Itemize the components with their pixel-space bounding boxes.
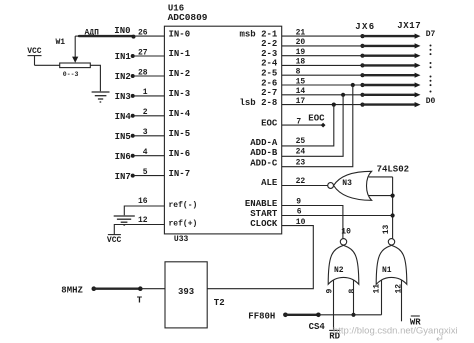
wire data bit 2-1 — [282, 35, 363, 37]
svg-text:ref(-): ref(-) — [169, 201, 198, 210]
bus ellipsis dots — [430, 45, 432, 93]
junction N3 lower input — [391, 194, 395, 198]
wire VCC to potentiometer — [35, 64, 60, 66]
svg-text:8MHZ: 8MHZ — [61, 286, 83, 296]
svg-text:16: 16 — [138, 197, 148, 206]
svg-text:JX6: JX6 — [355, 22, 375, 32]
junction — [360, 63, 364, 67]
wire N3 input lower — [369, 195, 393, 197]
junction JX6 D7 — [360, 34, 364, 38]
arrow D3 — [415, 73, 421, 78]
svg-text:ENABLE: ENABLE — [245, 199, 278, 209]
svg-text:27: 27 — [138, 48, 148, 57]
wire EOC — [282, 124, 322, 126]
junction — [360, 73, 364, 77]
svg-text:3: 3 — [143, 128, 148, 137]
svg-text:IN2: IN2 — [115, 72, 131, 82]
wire wiper vertical — [74, 36, 76, 57]
wire IN5 — [133, 135, 165, 137]
svg-text:2-5: 2-5 — [261, 69, 277, 79]
wire CS4 (bold) — [285, 314, 318, 316]
junction — [360, 44, 364, 48]
svg-text:8: 8 — [348, 289, 357, 294]
junction — [360, 83, 364, 87]
svg-text:2-3: 2-3 — [261, 49, 277, 59]
svg-text:IN4: IN4 — [115, 112, 132, 122]
svg-text:25: 25 — [296, 137, 306, 146]
svg-text:0--3: 0--3 — [63, 71, 79, 78]
node RD — [329, 330, 340, 341]
junction — [360, 103, 364, 107]
wire ALE — [282, 185, 328, 187]
svg-text:5: 5 — [143, 168, 148, 177]
wire IN2 — [133, 75, 165, 77]
arrow D0 — [415, 102, 421, 107]
junction ADD-C tap — [351, 83, 355, 87]
svg-text:2-7: 2-7 — [261, 88, 277, 98]
arrow D6 — [415, 43, 421, 48]
wire ADD-B to D1 — [282, 95, 343, 157]
wire bus D6 — [363, 45, 416, 47]
wire CLOCK to counter 393 — [207, 226, 313, 289]
svg-text:2: 2 — [143, 108, 148, 117]
svg-text:IN-4: IN-4 — [169, 109, 191, 119]
svg-text:393: 393 — [178, 287, 194, 297]
svg-text:VCC: VCC — [27, 47, 42, 56]
svg-text:24: 24 — [296, 148, 306, 157]
svg-text:ADC0809: ADC0809 — [168, 12, 208, 23]
arrow D4 — [415, 63, 421, 68]
wire ADD-C to D2 — [282, 85, 353, 167]
wire data bit 2-6 — [282, 84, 363, 86]
wire bus D2 — [363, 84, 416, 86]
svg-text:ADD-A: ADD-A — [250, 138, 278, 148]
wire N1 input pin12 to WR — [401, 280, 403, 322]
wire 8MHZ clock (bold) — [94, 288, 141, 290]
arrow D2 — [415, 82, 421, 87]
svg-text:CLOCK: CLOCK — [250, 219, 278, 229]
svg-text:EOC: EOC — [261, 118, 278, 128]
svg-text:12: 12 — [138, 216, 148, 225]
transistor Q2 : NOR gate N1 (vertical) — [376, 239, 407, 285]
svg-text:U33: U33 — [174, 235, 189, 244]
wire ref(+) pin 12 — [114, 225, 164, 235]
svg-text:2-6: 2-6 — [261, 78, 277, 88]
wire ref(-) pin 16 — [124, 206, 164, 215]
wire ADD-A to D0 — [282, 105, 334, 146]
wire N3 input upper — [369, 176, 393, 178]
svg-text:IN3: IN3 — [115, 92, 131, 102]
wire bus D4 — [363, 64, 416, 66]
svg-text:13: 13 — [382, 224, 391, 234]
wire CS4 to N1 pin11 — [318, 314, 381, 316]
wire IN0 to pin 26 — [134, 35, 165, 37]
op-amp N3 NOR gate 74LS02 (mirrored) — [328, 171, 372, 200]
resistor W1 potentiometer body — [60, 63, 91, 68]
wire bus D3 — [363, 74, 416, 76]
svg-text:28: 28 — [138, 68, 148, 77]
junction — [360, 93, 364, 97]
svg-text:ADD-B: ADD-B — [250, 148, 278, 158]
arrow D5 — [415, 53, 421, 58]
svg-text:T: T — [137, 296, 143, 306]
junction — [360, 54, 364, 58]
svg-text:VCC: VCC — [107, 236, 122, 245]
svg-text:IN1: IN1 — [115, 52, 132, 62]
svg-text:D0: D0 — [426, 97, 436, 106]
wiper arrowhead — [72, 57, 78, 63]
svg-text:26: 26 — [138, 28, 148, 37]
svg-text:ref(+): ref(+) — [169, 220, 198, 229]
junction IN0 — [132, 35, 136, 39]
svg-text:msb 2-1: msb 2-1 — [239, 29, 277, 39]
svg-text:10: 10 — [341, 228, 351, 237]
svg-text:CS4: CS4 — [309, 322, 326, 332]
svg-text:EOC: EOC — [308, 114, 325, 124]
wire N3 inputs to START/N1 vertical — [392, 177, 394, 239]
svg-text:IN6: IN6 — [115, 152, 131, 162]
svg-text:ADD-C: ADD-C — [250, 159, 278, 169]
capacitor C1 : counter 393 box — [165, 262, 207, 328]
wire IN1 — [133, 55, 165, 57]
svg-text:IN-5: IN-5 — [169, 129, 191, 139]
svg-text:IN-6: IN-6 — [169, 149, 191, 159]
svg-text:22: 22 — [296, 177, 306, 186]
svg-text:74LS02: 74LS02 — [377, 164, 409, 174]
svg-text:lsb 2-8: lsb 2-8 — [239, 98, 277, 108]
wire bus D5 — [363, 55, 416, 57]
svg-text:START: START — [250, 209, 278, 219]
junction ADD-B tap — [341, 93, 345, 97]
wire IN3 — [133, 95, 165, 97]
wire IN4 — [133, 115, 165, 117]
wire bus D0 — [363, 103, 416, 105]
op-amp U1 : ADC0809 IC body U16 — [164, 26, 281, 234]
wire data bit 2-5 — [282, 74, 363, 76]
svg-text:2-2: 2-2 — [261, 39, 277, 49]
svg-text:IN5: IN5 — [115, 132, 131, 142]
arrow D7 — [415, 34, 421, 39]
ground (under potentiometer) — [92, 92, 110, 102]
junction START — [391, 213, 395, 217]
junction pin8/CS4 — [351, 313, 355, 317]
junction T — [138, 286, 143, 291]
wire N2 input pin8 to CS4 net — [353, 280, 355, 315]
junction CS4 — [316, 313, 321, 318]
svg-text:D7: D7 — [426, 30, 436, 39]
wire N1 input pin11 from CS4 net — [381, 280, 383, 315]
node VCC (bottom) — [107, 235, 122, 246]
svg-text:IN0: IN0 — [114, 26, 130, 36]
svg-text:IN7: IN7 — [115, 172, 131, 182]
wire N2 input pin9 to RD — [333, 280, 335, 330]
svg-text:IN-0: IN-0 — [169, 29, 191, 39]
svg-text:IN-3: IN-3 — [169, 89, 191, 99]
wire data bit 2-4 — [282, 64, 363, 66]
svg-text:N1: N1 — [382, 266, 392, 275]
node VCC (top left) — [27, 47, 42, 65]
wire IN7 — [133, 175, 165, 177]
wire ENABLE to N2 output — [282, 206, 343, 239]
arrow D1 — [415, 92, 421, 97]
junction FF80H — [283, 313, 288, 318]
svg-text:↵: ↵ — [436, 334, 444, 343]
wire data bit 2-8 — [282, 104, 363, 106]
node EOC terminal — [321, 123, 326, 128]
wire START — [282, 215, 393, 217]
svg-text:JX17: JX17 — [397, 21, 421, 31]
wire IN0 (bold analog input) — [75, 35, 79, 37]
svg-text:12: 12 — [395, 284, 404, 294]
svg-text:11: 11 — [372, 284, 381, 294]
svg-text:23: 23 — [296, 158, 306, 167]
svg-text:IN-7: IN-7 — [169, 169, 191, 179]
junction 8MHZ — [92, 286, 97, 291]
svg-text:4: 4 — [143, 148, 148, 157]
wire bus D1 — [363, 94, 416, 96]
svg-text:2-4: 2-4 — [261, 59, 278, 69]
svg-text:ALE: ALE — [261, 178, 278, 188]
wire data bit 2-3 — [282, 55, 363, 57]
wire pot right to ground — [90, 65, 100, 91]
wire T to 393 — [140, 288, 165, 290]
wire IN6 — [133, 155, 165, 157]
svg-text:N2: N2 — [334, 266, 344, 275]
svg-text:T2: T2 — [214, 298, 225, 308]
svg-text:IN-1: IN-1 — [169, 49, 191, 59]
svg-text:W1: W1 — [56, 38, 66, 47]
svg-text:N3: N3 — [342, 179, 352, 188]
junction ADD-A tap — [332, 103, 336, 107]
svg-text:1: 1 — [143, 88, 148, 97]
svg-text:FF80H: FF80H — [248, 312, 275, 322]
wire data bit 2-2 — [282, 45, 363, 47]
wire data bit 2-7 — [282, 94, 363, 96]
wire bus D7 — [363, 35, 416, 37]
svg-text:IN-2: IN-2 — [169, 69, 191, 79]
node WR — [410, 316, 421, 327]
transistor Q1 : NOR gate N2 (vertical) — [328, 239, 359, 285]
ground (ref minus) — [114, 216, 135, 225]
